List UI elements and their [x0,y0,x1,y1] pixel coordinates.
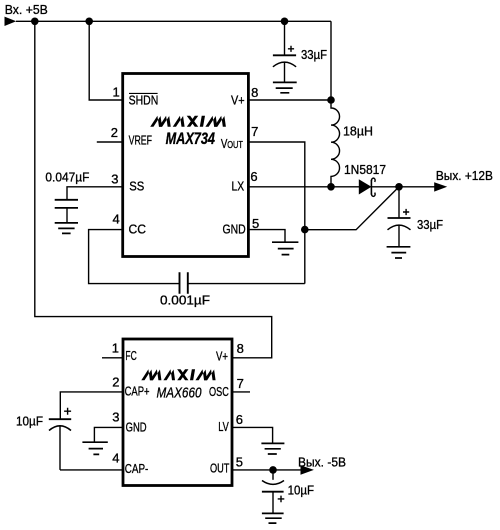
node A junction dot left rail [31,18,39,26]
capacitor C1 33uF input: lead [284,21,286,55]
svg-text:7: 7 [251,124,258,139]
wire LV pin6 [232,427,273,443]
svg-text:3: 3 [112,410,119,425]
wire OSC pin7 stub [232,391,250,393]
svg-text:V+: V+ [216,349,228,364]
output arrow +12V [434,182,447,191]
svg-text:Вых. +12В: Вых. +12В [436,168,493,183]
wire comp cap to vout rail [188,283,305,285]
U1 label SHDN overline [129,92,158,94]
wire SS pin3 [67,187,123,200]
capacitor C1 lower lead [284,63,286,83]
wire GND pin5 [248,230,285,243]
svg-text:MAX660: MAX660 [157,385,203,402]
wire LX pin6 [248,186,359,188]
svg-text:LX: LX [232,179,245,194]
svg-text:10µF: 10µF [288,482,315,497]
wire right rail to V+ pin8 [248,21,331,100]
svg-text:33µF: 33µF [301,47,327,62]
svg-text:Вых. -5В: Вых. -5В [298,454,346,469]
svg-text:0.001µF: 0.001µF [160,293,210,308]
wire VOUT pin7 [248,142,304,284]
svg-text:6: 6 [236,412,243,427]
svg-text:OSC: OSC [209,384,229,399]
capacitor C3 0.001uF plates [180,272,188,294]
wire diagonal feedback [305,187,399,230]
node C junction dot input cap [281,18,289,26]
svg-text:10µF: 10µF [16,414,43,429]
wire CAP- pin4 [60,469,123,471]
svg-text:4: 4 [112,451,119,466]
node junction dot LX/inductor [327,183,335,191]
ground input cap [273,82,297,92]
diode D1 schottky top hook [371,178,375,182]
svg-text:33µF: 33µF [417,217,443,232]
capacitor C1 plus sign [288,46,294,52]
svg-text:MAX734: MAX734 [166,130,215,148]
svg-text:1N5817: 1N5817 [344,162,386,177]
wire VREF pin2 stub [97,141,123,143]
node junction dot vout/diag [301,226,309,234]
wire FC pin1 stub [102,357,123,359]
capacitor C5 10uF plus sign [64,408,71,415]
svg-text:VREF: VREF [129,132,152,147]
svg-text:1: 1 [112,341,119,356]
wire left rail down to MAX660 V+ [35,21,272,358]
svg-text:3: 3 [111,172,118,187]
svg-text:OUT: OUT [227,139,243,151]
output arrow -5V [301,465,314,474]
svg-text:CAP-: CAP- [125,461,149,476]
ground out cap [262,513,284,523]
wire diode to output [370,186,435,188]
wire shdn drop to pin1 [89,21,123,100]
svg-text:18µH: 18µH [343,124,373,139]
capacitor C2 lower lead [398,225,400,246]
svg-text:SS: SS [129,178,144,193]
wire top rail [16,20,331,22]
capacitor C5 curved plate [49,426,71,431]
wire CAP+ pin2 [60,392,123,419]
svg-text:LV: LV [218,419,229,434]
svg-text:V+: V+ [231,92,245,107]
svg-text:FC: FC [125,348,136,363]
capacitor C1 top plate [273,54,296,56]
op-amp U2 MAX660 box [123,339,232,486]
svg-text:OUT: OUT [210,460,229,475]
svg-text:CAP+: CAP+ [125,384,150,399]
capacitor C6 lower lead [272,492,274,514]
capacitor C6 plus sign [278,496,285,503]
ground output cap [387,247,411,258]
svg-text:GND: GND [223,222,246,237]
capacitor C2 plus sign [403,209,409,215]
op-amp U1 MAX734 box [123,74,249,257]
capacitor C6 10uF out: lead [272,470,274,480]
svg-text:8: 8 [251,85,258,100]
svg-text:5: 5 [252,216,259,231]
svg-text:2: 2 [112,374,119,389]
ground ss cap [55,223,78,234]
ground pin3 [82,442,107,454]
capacitor C5 top plate [49,418,71,420]
capacitor C4 lower lead [66,208,68,223]
node junction dot out [269,466,277,474]
svg-text:8: 8 [237,341,244,356]
wire CC pin4 to comp cap [89,230,180,284]
node B junction dot shdn rail [85,18,93,26]
wire OUT pin5 [232,469,301,471]
ground pin6 [261,443,284,454]
svg-text:5: 5 [236,455,243,470]
capacitor C2 33uF output: lead [398,187,400,218]
svg-text:Вх. +5В: Вх. +5В [5,2,48,17]
capacitor C6 curved plate [262,481,284,485]
diode D1 schottky bottom hook [371,193,375,197]
svg-text:6: 6 [250,169,257,184]
capacitor C1 curved plate [273,62,296,67]
capacitor C2 top plate [388,217,411,219]
node junction dot output [395,183,403,191]
capacitor C6 bottom plate [262,491,284,493]
svg-text:0.047µF: 0.047µF [45,170,89,185]
capacitor C2 curved plate [388,225,411,230]
svg-text:7: 7 [237,376,244,391]
wire GND pin3 [94,427,123,442]
diode D1 schottky cathode bar [370,180,372,195]
diode D1 1N5817 triangle [359,179,372,194]
capacitor C4 0.047uF plates [55,200,78,208]
svg-text:1: 1 [113,85,120,100]
ground pin5 [272,242,298,254]
svg-text:SHDN: SHDN [129,93,159,108]
input arrow [5,17,17,26]
U2 MAXIM logo [141,369,215,380]
capacitor C5 lower lead [59,426,61,470]
svg-text:2: 2 [111,125,118,140]
svg-text:4: 4 [113,211,120,226]
svg-text:GND: GND [126,419,147,434]
node junction dot V+/inductor [327,96,335,104]
inductor L1 18uH [331,100,340,187]
svg-text:CC: CC [129,222,147,237]
